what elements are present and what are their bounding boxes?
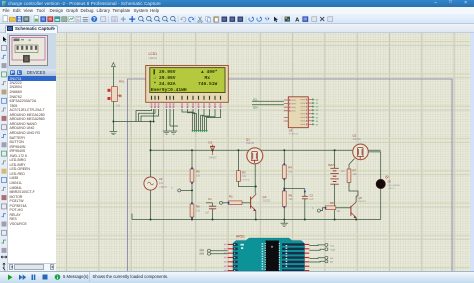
svg-text:SDA: SDA <box>330 249 335 252</box>
svg-text:▌ 29.95V: ▌ 29.95V <box>154 69 176 75</box>
svg-text:C2: C2 <box>309 194 313 198</box>
svg-text:SDA: SDA <box>253 106 258 109</box>
svg-text:<TEXT>: <TEXT> <box>159 186 168 189</box>
svg-text:▲ 499*: ▲ 499* <box>201 69 218 75</box>
svg-text:LM041L: LM041L <box>149 57 158 60</box>
svg-text:Q1: Q1 <box>246 138 250 142</box>
svg-text:⌂ 29.95V: ⌂ 29.95V <box>154 75 176 81</box>
svg-text:i: i <box>57 275 58 280</box>
svg-text:<TEXT>: <TEXT> <box>242 179 251 182</box>
svg-text:PCF8574: PCF8574 <box>289 134 299 136</box>
svg-text:V2: V2 <box>159 177 163 181</box>
svg-text:2N2222: 2N2222 <box>263 201 272 203</box>
svg-text:Q5: Q5 <box>358 196 362 200</box>
svg-text:12V: 12V <box>341 170 346 173</box>
svg-text:12V: 12V <box>159 182 164 185</box>
svg-text:LED-GREEN: LED-GREEN <box>388 185 401 187</box>
svg-text:R7: R7 <box>353 169 357 173</box>
svg-text:R9: R9 <box>289 194 293 198</box>
svg-text:R2: R2 <box>242 171 246 175</box>
svg-text:* 24.92A: * 24.92A <box>154 81 176 87</box>
svg-text:2N6760: 2N6760 <box>353 139 362 141</box>
svg-text:R1: R1 <box>229 195 233 199</box>
svg-text:D2: D2 <box>388 180 392 184</box>
svg-text:R5: R5 <box>196 170 200 174</box>
svg-text:R4: R4 <box>288 166 292 170</box>
svg-text:2N2222: 2N2222 <box>358 201 366 203</box>
svg-text:1N4007: 1N4007 <box>209 158 218 160</box>
svg-text:LCD1: LCD1 <box>149 52 158 56</box>
svg-text:1uF: 1uF <box>309 198 314 201</box>
svg-text:ARD1: ARD1 <box>236 235 245 239</box>
svg-text:RV1: RV1 <box>119 80 125 84</box>
svg-text:?: ? <box>93 17 96 23</box>
svg-text:R8: R8 <box>330 201 334 205</box>
svg-text:Ener9y=0.41WH: Ener9y=0.41WH <box>151 87 187 93</box>
svg-text:U3: U3 <box>289 129 293 133</box>
svg-text:SCL: SCL <box>253 99 258 101</box>
svg-text:<TEXT>: <TEXT> <box>388 187 396 190</box>
svg-text:R6: R6 <box>196 205 200 209</box>
svg-text:A: A <box>295 17 300 23</box>
svg-text:1uF: 1uF <box>205 212 210 215</box>
svg-text:BAT1: BAT1 <box>329 163 336 167</box>
svg-text:Q3: Q3 <box>263 195 267 199</box>
svg-text:2N6760: 2N6760 <box>246 143 255 145</box>
svg-text:Q2: Q2 <box>353 134 357 138</box>
svg-text:Mx: Mx <box>205 75 211 81</box>
svg-text:D1: D1 <box>209 141 213 145</box>
svg-text:746.51W: 746.51W <box>198 81 218 87</box>
svg-text:C1: C1 <box>208 197 212 201</box>
